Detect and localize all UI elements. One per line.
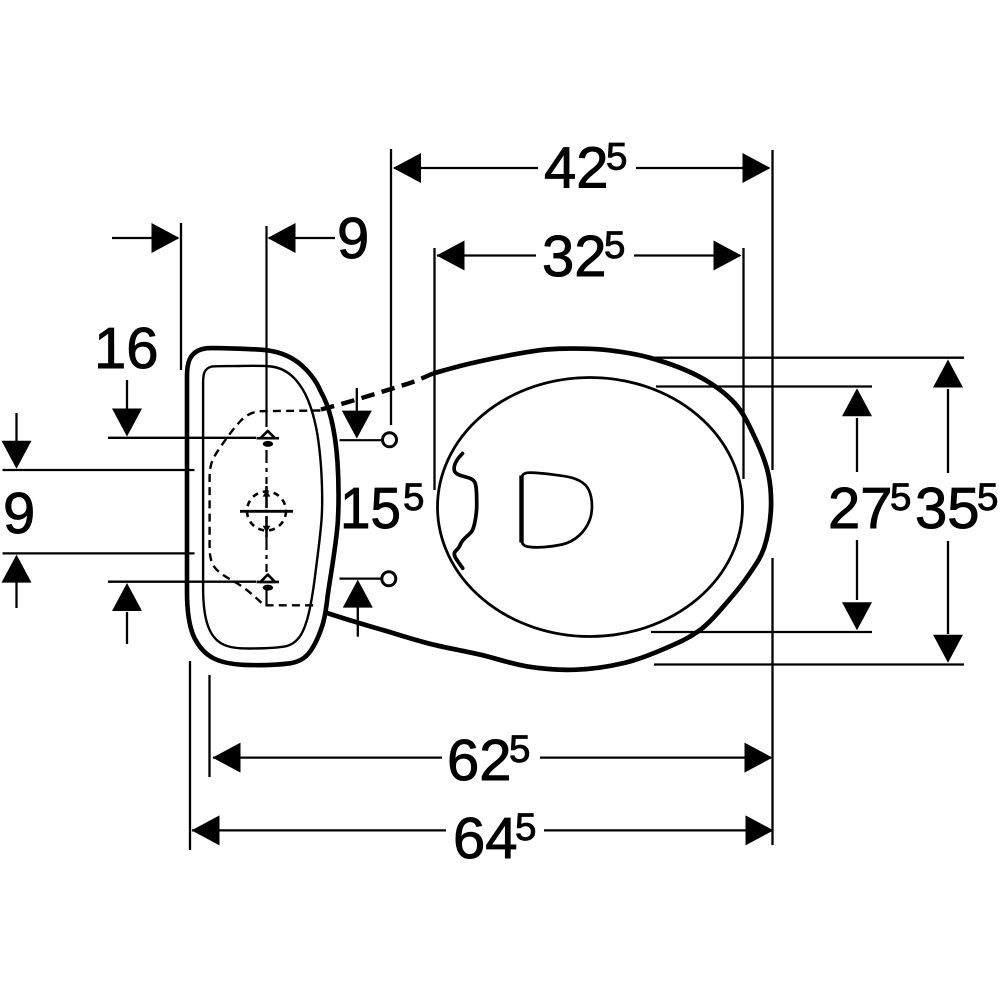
dim 15.5 [342, 388, 373, 637]
svg-text:5: 5 [606, 136, 627, 179]
dim 42.5 [391, 149, 773, 845]
svg-text:27: 27 [828, 476, 893, 541]
dim 27.5 [651, 387, 872, 633]
svg-text:64: 64 [453, 806, 518, 871]
svg-text:5: 5 [509, 728, 530, 771]
svg-text:5: 5 [604, 224, 625, 267]
flush wavy line [454, 454, 477, 569]
svg-text:15: 15 [340, 476, 401, 541]
fixation symbol top [257, 431, 280, 447]
dim 62.5 [210, 675, 773, 777]
svg-text:5: 5 [515, 806, 536, 849]
dim 64.5 [190, 661, 774, 850]
svg-text:16: 16 [94, 316, 159, 381]
cistern interior dashed contour [210, 411, 321, 606]
cistern inner contour [203, 366, 322, 649]
bowl outer contour solid [326, 349, 771, 670]
drill crosshair symbol [240, 486, 293, 537]
dim 9 left [2, 413, 195, 608]
svg-text:32: 32 [542, 224, 607, 289]
seat opening inner oval [438, 378, 743, 637]
dim 35.5 [649, 358, 964, 665]
trapway D-blob [521, 473, 592, 548]
hinge leader top [340, 439, 382, 441]
svg-text:5: 5 [403, 476, 424, 519]
hinge leader bottom [340, 577, 381, 579]
trapway D-blob thick left edge [519, 476, 523, 543]
bowl outer contour dashed part (top-left) [321, 374, 433, 410]
fixation symbol bottom [257, 575, 280, 591]
svg-text:5: 5 [977, 476, 998, 519]
svg-text:42: 42 [544, 136, 609, 201]
svg-text:62: 62 [447, 728, 512, 793]
svg-text:9: 9 [3, 481, 35, 546]
dim 9 top [112, 223, 335, 370]
cistern outer contour [187, 348, 338, 665]
cistern centerline [265, 226, 267, 606]
svg-text:5: 5 [890, 476, 911, 519]
hinge hole bottom [382, 572, 396, 586]
svg-text:35: 35 [915, 476, 980, 541]
hinge hole top [383, 433, 397, 447]
dim 32.5 [435, 241, 744, 491]
svg-text:9: 9 [337, 206, 369, 271]
